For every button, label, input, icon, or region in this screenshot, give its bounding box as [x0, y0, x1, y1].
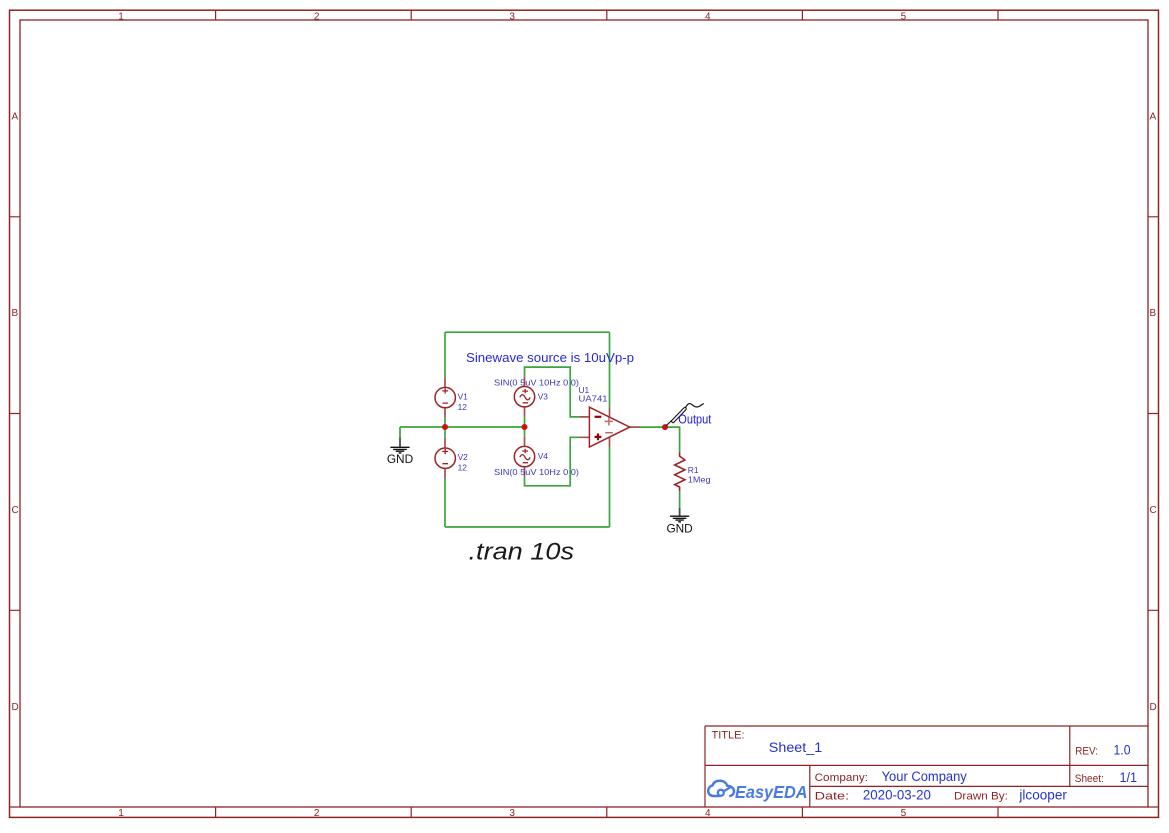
wire: ground tap drop: [399, 427, 401, 437]
junction node: V3/V4 center tap: [522, 424, 528, 430]
junction node: output net: [662, 424, 668, 430]
svg-text:GND: GND: [666, 521, 693, 535]
svg-text:5: 5: [901, 12, 907, 23]
wire: V4 bottom loop to op-amp plus input: [525, 437, 580, 486]
wire: V3 top to inner loop: [525, 367, 580, 417]
svg-text:3: 3: [509, 808, 515, 819]
svg-text:1: 1: [118, 12, 124, 23]
wire: ground tap horizontal: [400, 426, 445, 428]
wire: center tap to V3/V4 junction: [445, 426, 525, 428]
net flag probe: Output: [666, 404, 704, 426]
svg-text:Sheet_1: Sheet_1: [769, 740, 822, 755]
svg-text:EasyEDA: EasyEDA: [735, 782, 808, 802]
svg-text:D: D: [12, 702, 19, 713]
wire: V3 bottom to junction: [524, 417, 526, 427]
svg-text:V2: V2: [458, 452, 469, 462]
svg-text:1/1: 1/1: [1120, 770, 1138, 785]
svg-text:Date:: Date:: [815, 791, 850, 803]
wire: right supply rail upper (to op-amp V+): [609, 332, 611, 407]
svg-text:jlcooper: jlcooper: [1018, 788, 1067, 803]
svg-text:Company:: Company:: [815, 772, 868, 784]
wire: junction to V4 top: [524, 427, 526, 437]
svg-text:V4: V4: [538, 451, 549, 461]
junction node: V1/V2 center tap: [442, 424, 448, 430]
svg-text:UA741: UA741: [579, 394, 608, 404]
svg-text:R1: R1: [688, 465, 699, 475]
voltage source V1: [435, 378, 455, 418]
resistor R1: [675, 452, 685, 491]
svg-text:12: 12: [458, 402, 468, 412]
svg-text:.tran 10s: .tran 10s: [469, 539, 575, 566]
sine voltage source V3: [514, 377, 534, 417]
wire: left rail down to V1: [444, 332, 446, 377]
svg-text:Output: Output: [678, 413, 711, 427]
svg-text:Your Company: Your Company: [882, 769, 967, 784]
wire: R1 bottom to ground: [679, 491, 681, 507]
svg-text:Sheet:: Sheet:: [1075, 773, 1104, 785]
svg-text:2020-03-20: 2020-03-20: [863, 788, 931, 803]
svg-text:A: A: [12, 112, 19, 123]
ground symbol GND (right, R1 bottom): [666, 508, 693, 536]
svg-text:Drawn By:: Drawn By:: [954, 791, 1008, 803]
svg-text:D: D: [1150, 702, 1157, 713]
voltage source V2: [435, 438, 455, 479]
svg-text:4: 4: [705, 808, 711, 819]
svg-text:Sinewave source is 10uVp-p: Sinewave source is 10uVp-p: [466, 351, 634, 365]
svg-text:2: 2: [314, 808, 320, 819]
svg-text:A: A: [1150, 112, 1157, 123]
svg-text:GND: GND: [387, 452, 414, 466]
ground symbol GND (left, supply center tap): [387, 437, 414, 466]
svg-text:REV:: REV:: [1075, 745, 1098, 757]
wire: op-amp output to R1 top: [640, 427, 680, 452]
wire: right supply rail lower (from op-amp V-): [609, 447, 611, 527]
wire: V1 bottom to center tap junction: [444, 418, 446, 427]
op-amp U1: [580, 407, 640, 447]
svg-text:1Meg: 1Meg: [688, 474, 711, 484]
svg-text:B: B: [12, 308, 19, 319]
sine voltage source V4: [514, 437, 534, 477]
wire: center tap junction to V2 top: [444, 427, 446, 438]
wire: bottom supply rail: [445, 526, 610, 528]
svg-text:1: 1: [118, 808, 124, 819]
svg-text:5: 5: [901, 808, 907, 819]
wire: top supply rail: [445, 331, 610, 333]
svg-text:SIN(0 5uV 10Hz 0 0): SIN(0 5uV 10Hz 0 0): [494, 377, 579, 387]
svg-text:3: 3: [509, 12, 515, 23]
wire: V2 bottom to bottom rail: [444, 479, 446, 528]
svg-text:12: 12: [458, 463, 468, 473]
svg-text:C: C: [1150, 505, 1157, 516]
svg-text:TITLE:: TITLE:: [712, 730, 745, 742]
svg-text:V3: V3: [538, 392, 549, 402]
svg-text:SIN(0 5uV 10Hz 0 0): SIN(0 5uV 10Hz 0 0): [494, 467, 579, 477]
svg-text:4: 4: [705, 12, 711, 23]
svg-text:1.0: 1.0: [1114, 742, 1131, 757]
svg-text:V1: V1: [458, 391, 469, 401]
svg-text:C: C: [12, 505, 19, 516]
svg-text:2: 2: [314, 12, 320, 23]
svg-text:B: B: [1150, 308, 1157, 319]
